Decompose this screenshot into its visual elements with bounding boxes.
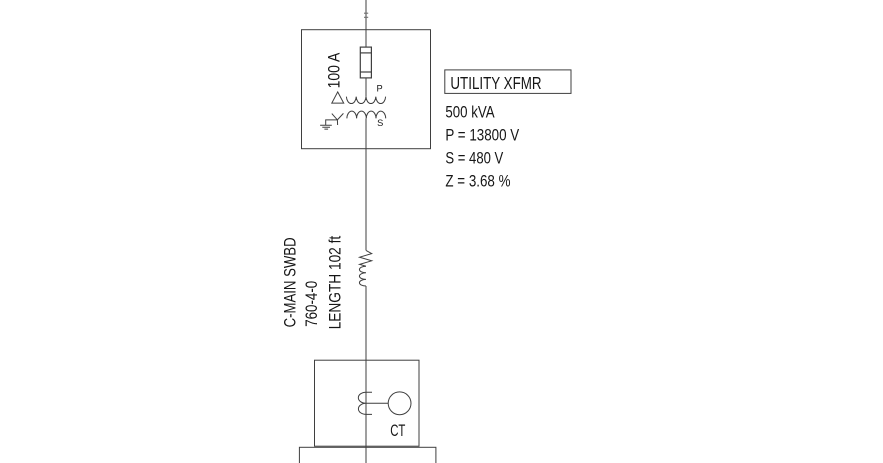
svg-text:CT: CT [390, 421, 405, 440]
wire cable to bottom of page [365, 286, 367, 463]
svg-text:P: P [377, 84, 383, 95]
delta symbol (primary winding configuration) [332, 92, 344, 103]
wire incoming utility (top) [365, 0, 367, 47]
svg-text:Z = 3.68 %: Z = 3.68 % [445, 172, 510, 191]
transformer T1 secondary winding [347, 111, 386, 118]
cable C-MAIN SWBD impedance (zigzag + coil) [360, 250, 372, 266]
main switchboard box (bottom, partial) [299, 447, 436, 463]
svg-text:C-MAIN SWBD: C-MAIN SWBD [281, 237, 300, 327]
fuse 100 A [360, 47, 371, 78]
wire fuse to transformer primary [365, 78, 367, 97]
UTILITY XFMR label box [445, 70, 571, 94]
svg-text:S: S [377, 118, 383, 129]
wire secondary to cable [365, 118, 367, 250]
svg-text:100 A: 100 A [325, 52, 344, 88]
transformer T1 primary winding [346, 97, 385, 104]
svg-text:UTILITY XFMR: UTILITY XFMR [450, 73, 541, 93]
svg-text:500 kVA: 500 kVA [445, 103, 495, 122]
svg-text:P = 13800 V: P = 13800 V [445, 126, 519, 145]
ground symbol [320, 125, 332, 129]
CT (current transformer) symbol [358, 392, 388, 414]
svg-text:S = 480 V: S = 480 V [445, 149, 503, 168]
wye symbol (secondary winding configuration) [326, 113, 344, 125]
svg-text:LENGTH 102 ft: LENGTH 102 ft [326, 236, 345, 330]
transformer enclosure box [302, 30, 431, 149]
CT enclosure box [315, 360, 420, 446]
svg-text:760-4-0: 760-4-0 [302, 281, 321, 327]
node tick marks on utility feed [364, 13, 368, 17]
